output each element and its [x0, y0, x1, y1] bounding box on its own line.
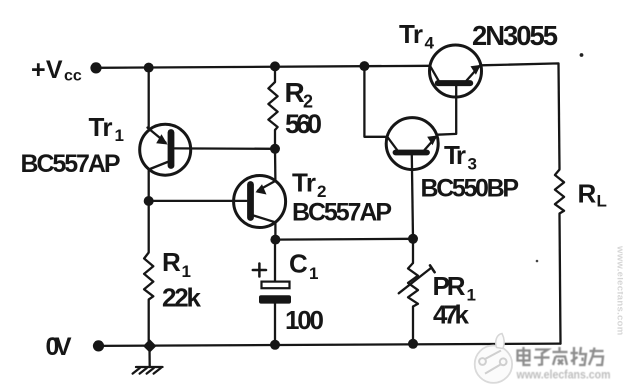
svg-text:1: 1	[309, 264, 318, 283]
svg-text:22k: 22k	[162, 283, 202, 313]
svg-text:PR: PR	[433, 271, 466, 301]
svg-text:R: R	[578, 179, 597, 209]
svg-text:+V: +V	[31, 56, 63, 84]
svg-text:www.elecfans.com: www.elecfans.com	[615, 245, 623, 335]
svg-text:www.elecfans.com: www.elecfans.com	[516, 370, 611, 382]
svg-text:BC557AP: BC557AP	[21, 150, 121, 178]
svg-text:Tr: Tr	[292, 168, 316, 198]
svg-text:BC557AP: BC557AP	[292, 199, 392, 227]
svg-text:C: C	[289, 249, 308, 279]
svg-text:BC550BP: BC550BP	[421, 175, 520, 203]
svg-text:1: 1	[182, 262, 191, 281]
svg-text:Tr: Tr	[399, 19, 423, 49]
svg-text:Tr: Tr	[444, 140, 466, 170]
svg-text:47k: 47k	[433, 300, 470, 330]
svg-text:cc: cc	[64, 68, 82, 85]
svg-text:2N3055: 2N3055	[472, 20, 558, 51]
svg-text:Tr: Tr	[89, 112, 113, 142]
svg-text:L: L	[597, 192, 607, 211]
svg-text:R: R	[285, 77, 305, 108]
svg-text:3: 3	[468, 155, 477, 174]
svg-text:1: 1	[115, 126, 124, 145]
svg-text:4: 4	[425, 34, 435, 53]
svg-text:R: R	[162, 247, 181, 277]
svg-text:0V: 0V	[46, 333, 72, 361]
svg-text:560: 560	[285, 109, 322, 139]
svg-text:100: 100	[285, 305, 324, 335]
